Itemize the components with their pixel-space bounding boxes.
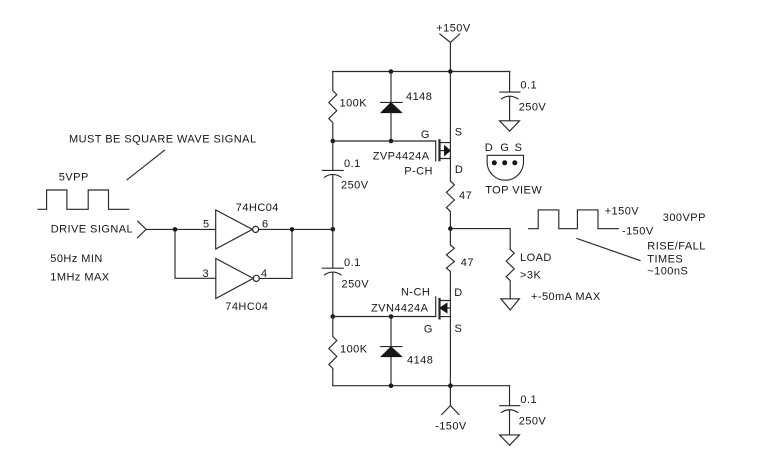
svg-text:5: 5 [203, 219, 210, 231]
input connector chevron [137, 221, 146, 238]
svg-text:4: 4 [261, 268, 268, 280]
package pin dots [492, 160, 518, 165]
wire +150V rail [333, 71, 510, 73]
svg-text:250V: 250V [342, 279, 370, 291]
wire N-channel gate line [333, 316, 436, 318]
svg-text:5VPP: 5VPP [59, 172, 89, 184]
svg-text:D: D [485, 142, 493, 154]
wire U1A output [259, 228, 292, 230]
ground top right [500, 121, 520, 131]
svg-text:-150V: -150V [622, 226, 654, 238]
capacitor C2 0.1 250V [322, 229, 343, 316]
power +150V symbol [440, 34, 460, 72]
node rail-diode junction [389, 69, 394, 74]
svg-text:0.1: 0.1 [344, 257, 361, 269]
resistor R4 47 [446, 229, 454, 301]
package top view outline [487, 155, 523, 180]
wire output to load [450, 229, 510, 250]
node D1 anode junction [389, 139, 394, 144]
svg-text:~100nS: ~100nS [647, 266, 688, 278]
svg-text:6: 6 [262, 219, 269, 231]
svg-text:+-50mA MAX: +-50mA MAX [531, 291, 601, 303]
svg-text:S: S [455, 323, 463, 335]
svg-text:RISE/FALL: RISE/FALL [647, 241, 705, 253]
inverter U1A 74HC04 [216, 210, 259, 249]
output waveform 300VPP [529, 210, 619, 229]
transistor Q2 ZVN4424A N-CH [436, 297, 451, 319]
ground bottom right [500, 435, 520, 445]
svg-text:1MHz MAX: 1MHz MAX [50, 272, 109, 284]
svg-text:G: G [500, 142, 509, 154]
svg-text:74HC04: 74HC04 [225, 301, 268, 313]
svg-text:TIMES: TIMES [647, 254, 683, 266]
svg-text:250V: 250V [341, 180, 369, 192]
inverter U1B 74HC04 [216, 259, 260, 299]
capacitor C1 0.1 250V [322, 141, 343, 229]
transistor Q1 ZVP4424A P-CH [436, 140, 451, 161]
svg-text:100K: 100K [340, 344, 368, 356]
node rail-diode junction bottom [389, 383, 394, 388]
wire input to inverters [146, 228, 216, 230]
node rail-source junction bottom [448, 383, 453, 388]
svg-text:47: 47 [459, 190, 472, 202]
svg-text:0.1: 0.1 [520, 80, 537, 92]
wire source column bottom [449, 301, 451, 386]
svg-text:250V: 250V [519, 416, 547, 428]
capacitor C3 0.1 250V top right [500, 72, 520, 121]
node coupling junction [331, 227, 336, 232]
resistor R2 100K [329, 317, 337, 386]
svg-text:100K: 100K [340, 98, 368, 110]
diode D2 4148 [381, 317, 402, 386]
svg-text:3: 3 [203, 268, 210, 280]
node C2-gate junction [331, 314, 336, 319]
wire U1B output [259, 229, 292, 278]
svg-text:DRIVE SIGNAL: DRIVE SIGNAL [51, 224, 133, 236]
power -150V symbol [442, 386, 459, 415]
resistor R3 47 [446, 181, 454, 229]
svg-text:D: D [454, 287, 462, 299]
resistor R1 100K [329, 72, 337, 142]
annotation leader line rise/fall [577, 239, 640, 261]
svg-text:+150V: +150V [436, 23, 471, 35]
svg-text:-150V: -150V [435, 421, 467, 433]
node rail-source junction [448, 69, 453, 74]
resistor R5 LOAD [506, 249, 514, 298]
svg-text:4148: 4148 [407, 355, 433, 367]
svg-text:G: G [424, 323, 433, 335]
wire to coupling capacitors [292, 228, 333, 230]
svg-text:4148: 4148 [406, 91, 432, 103]
input waveform 5VPP [38, 190, 129, 209]
svg-text:G: G [421, 129, 430, 141]
svg-text:0.1: 0.1 [520, 394, 537, 406]
svg-text:N-CH: N-CH [401, 287, 430, 299]
capacitor C4 0.1 250V bottom right [500, 386, 520, 435]
svg-text:S: S [515, 142, 523, 154]
node inverter outputs junction [290, 227, 295, 232]
svg-text:74HC04: 74HC04 [236, 202, 279, 214]
diode D1 4148 [381, 72, 402, 142]
svg-text:D: D [455, 164, 463, 176]
svg-text:0.1: 0.1 [344, 158, 361, 170]
node D2 cathode junction [389, 314, 394, 319]
node input junction [173, 227, 178, 232]
svg-text:47: 47 [461, 257, 474, 269]
node R1-gate junction [331, 139, 336, 144]
ground load [501, 299, 520, 310]
svg-text:S: S [455, 126, 463, 138]
svg-text:250V: 250V [519, 101, 547, 113]
annotation leader line [127, 150, 165, 180]
svg-text:P-CH: P-CH [404, 166, 433, 178]
svg-text:ZVP4424A: ZVP4424A [373, 151, 430, 163]
wire P-channel gate line [333, 140, 436, 142]
svg-text:LOAD: LOAD [520, 252, 552, 264]
svg-text:50Hz MIN: 50Hz MIN [50, 253, 103, 265]
node output junction [448, 226, 453, 231]
svg-text:300VPP: 300VPP [663, 212, 706, 224]
wire drain column top [449, 72, 451, 182]
svg-text:ZVN4424A: ZVN4424A [371, 303, 429, 315]
svg-text:MUST BE SQUARE WAVE SIGNAL: MUST BE SQUARE WAVE SIGNAL [69, 133, 257, 145]
svg-text:+150V: +150V [605, 206, 640, 218]
svg-text:TOP VIEW: TOP VIEW [485, 184, 542, 196]
wire branch to U1B input [175, 229, 216, 278]
svg-text:>3K: >3K [520, 270, 541, 282]
wire -150V rail [333, 385, 510, 387]
